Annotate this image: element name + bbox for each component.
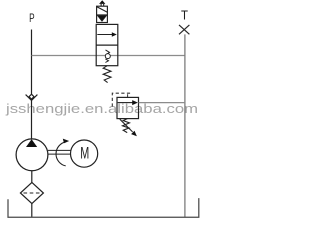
wire: P line vertical upper segment bbox=[31, 30, 33, 95]
relief valve RV1 flow arrow bbox=[118, 100, 138, 105]
svg-text:M: M bbox=[80, 143, 89, 162]
wire: main pressure line P to T bbox=[32, 55, 185, 57]
svg-text:P: P bbox=[29, 11, 35, 25]
valve V1 body (2-position) bbox=[96, 24, 118, 65]
svg-text:jsshengjie.en.alibaba.com: jsshengjie.en.alibaba.com bbox=[5, 102, 198, 116]
wire: filter to tank bbox=[31, 204, 33, 218]
relief valve RV1 adjustment arrow bbox=[120, 119, 137, 136]
valve V1 position 1 flow arrow bbox=[97, 32, 117, 36]
wire: T line vertical bbox=[184, 34, 186, 217]
check valve on P line bbox=[26, 94, 38, 100]
valve V1 return spring bbox=[103, 66, 111, 83]
tank reservoir bbox=[8, 198, 199, 217]
svg-text:T: T bbox=[181, 8, 188, 22]
watermark text bbox=[5, 102, 198, 116]
shaft rotation arrow bbox=[56, 139, 69, 166]
relief valve RV1 pilot stub bbox=[127, 94, 129, 97]
motor M1 circle bbox=[71, 140, 98, 167]
relief valve RV1 pilot dashed line bbox=[112, 93, 130, 106]
port T label bbox=[181, 8, 188, 22]
plugged port X at T bbox=[179, 25, 189, 34]
filter F1 element dashed bbox=[24, 192, 41, 194]
relief valve RV1 body bbox=[117, 97, 139, 118]
pump P1 circle bbox=[16, 139, 48, 171]
manual override arrow on solenoid bbox=[99, 0, 105, 6]
filter F1 diamond bbox=[20, 182, 43, 203]
solenoid U1 coil box bbox=[97, 6, 108, 15]
relief valve RV1 spring bbox=[123, 119, 130, 133]
solenoid armature box with poppet triangle bbox=[97, 15, 108, 23]
drive shaft bbox=[48, 150, 71, 154]
pump P1 flow triangle bbox=[26, 139, 37, 147]
port P label bbox=[29, 11, 35, 25]
wire: relief valve outlet to T line bbox=[139, 102, 185, 104]
valve V1 position 2 check poppet bbox=[105, 50, 110, 63]
wire: P line vertical lower segment to pump bbox=[31, 100, 33, 139]
wire: pump suction to filter bbox=[31, 171, 33, 183]
